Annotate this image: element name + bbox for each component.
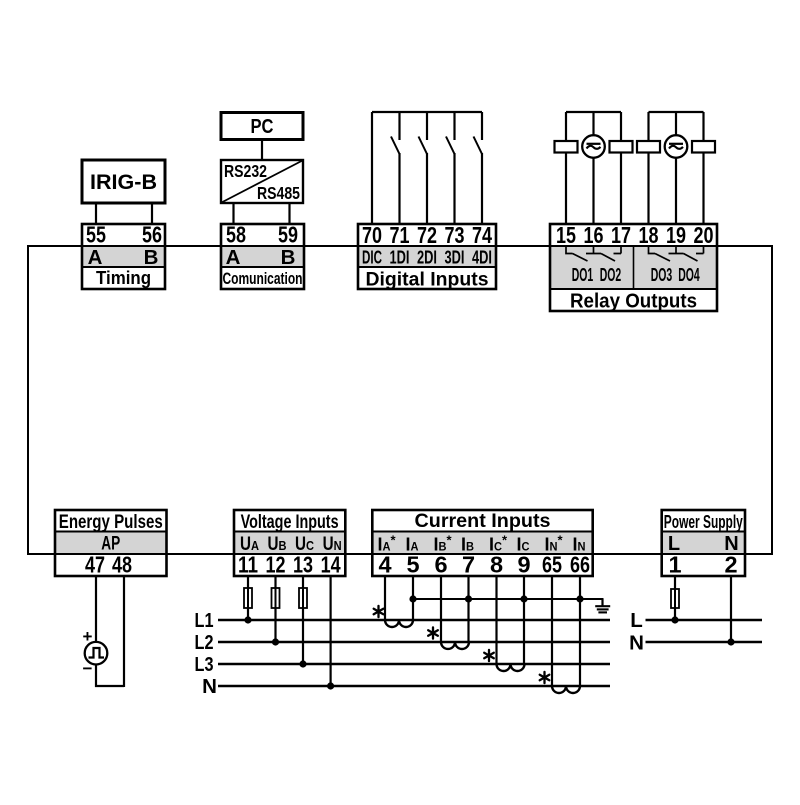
svg-text:N: N: [629, 632, 644, 655]
svg-text:DIC: DIC: [362, 247, 382, 268]
svg-text:12: 12: [266, 552, 286, 578]
svg-text:B: B: [144, 246, 159, 269]
wire fuse to L3: [302, 608, 304, 665]
wire pulse return: [95, 685, 124, 687]
svg-text:56: 56: [142, 222, 162, 248]
wire converter pin 58: [232, 203, 234, 224]
fuse FU4: [674, 589, 676, 608]
svg-text:66: 66: [570, 552, 590, 578]
terminal block Timing: [82, 222, 165, 290]
svg-text:71: 71: [390, 222, 410, 248]
wire top bus: [28, 245, 772, 247]
svg-text:Digital Inputs: Digital Inputs: [366, 269, 489, 291]
svg-text:1DI: 1DI: [390, 247, 410, 268]
svg-text:59: 59: [278, 222, 298, 248]
svg-text:47: 47: [85, 552, 105, 578]
wire line L1: [218, 619, 610, 621]
svg-text:18: 18: [639, 222, 659, 248]
ground: [595, 599, 610, 612]
wire line N: [218, 685, 610, 687]
terminal block Digital Inputs: [358, 222, 496, 291]
wire pulse source bottom: [95, 664, 97, 687]
wire pin 7 (IB): [467, 576, 469, 642]
wire relay group 2 top bus: [649, 111, 704, 113]
fuse FU3: [302, 588, 304, 608]
svg-text:DO4: DO4: [678, 264, 700, 285]
load L1a: [565, 112, 567, 141]
fuse FU1: [247, 588, 249, 608]
terminal block Power Supply: [662, 510, 745, 578]
svg-text:Power Supply: Power Supply: [664, 511, 743, 532]
svg-text:4: 4: [378, 552, 391, 578]
switch DI3: [446, 112, 455, 224]
svg-text:15: 15: [556, 222, 576, 248]
svg-text:RS232: RS232: [224, 161, 267, 181]
wire right bus vertical: [771, 245, 773, 555]
node L1-11: [244, 616, 251, 623]
load L2a: [647, 112, 649, 141]
wire digital input common top bus: [372, 111, 482, 113]
wire pin 8 (IC*): [495, 576, 497, 664]
label polarity mark B: [428, 627, 438, 638]
svg-text:DO2: DO2: [600, 264, 622, 285]
wire pin 2: [730, 576, 732, 643]
current transformer CTN: [552, 686, 580, 693]
load L2b: [702, 112, 704, 141]
svg-text:55: 55: [86, 222, 106, 248]
svg-text:4DI: 4DI: [472, 247, 492, 268]
wire pin 6 (IB*): [440, 576, 442, 642]
svg-text:6: 6: [434, 552, 447, 578]
wire pin 14: [330, 576, 332, 687]
terminal block Voltage Inputs: [234, 510, 345, 578]
wire pin 5 (IA): [412, 576, 414, 620]
node L3-13: [299, 660, 306, 667]
wire DIC pin 70: [371, 112, 373, 224]
svg-text:73: 73: [445, 222, 465, 248]
svg-text:7: 7: [462, 552, 475, 578]
svg-text:Timing: Timing: [96, 268, 151, 288]
svg-text:20: 20: [694, 222, 714, 248]
node N-2: [727, 638, 734, 645]
svg-text:11: 11: [238, 552, 258, 578]
svg-text:13: 13: [293, 552, 313, 578]
terminal block Communication: [221, 222, 304, 290]
svg-text:Current Inputs: Current Inputs: [415, 511, 551, 532]
svg-text:74: 74: [472, 222, 492, 248]
node L2-12: [272, 638, 279, 645]
svg-text:L1: L1: [195, 609, 214, 632]
svg-text:DO1: DO1: [572, 264, 594, 285]
wire pin 66 (IN): [579, 576, 581, 686]
node N-14: [327, 682, 334, 689]
wire line L3: [218, 663, 610, 665]
svg-text:L3: L3: [195, 653, 214, 676]
wire line N supply: [646, 641, 763, 643]
wire pin 13: [302, 576, 304, 588]
wire converter pin 59: [288, 203, 290, 224]
svg-text:9: 9: [517, 552, 530, 578]
svg-text:Voltage Inputs: Voltage Inputs: [241, 512, 339, 533]
current transformer CTC: [497, 664, 525, 671]
wire fuse to L: [674, 608, 676, 621]
switch DI4: [474, 112, 483, 224]
wire PC to converter: [261, 140, 263, 161]
wire line L2: [218, 641, 610, 643]
svg-text:IRIG-B: IRIG-B: [90, 171, 157, 194]
wire line L supply: [646, 619, 763, 621]
wire relay group 1 top bus: [566, 111, 621, 113]
wire fuse to L1: [247, 608, 249, 621]
wire pin 9 (IC): [523, 576, 525, 664]
current transformer CTB: [441, 642, 469, 649]
label polarity mark A: [374, 606, 384, 617]
svg-text:2DI: 2DI: [417, 247, 437, 268]
wire pin 47: [95, 576, 97, 643]
svg-text:16: 16: [584, 222, 604, 248]
svg-text:3DI: 3DI: [445, 247, 465, 268]
svg-text:Relay Outputs: Relay Outputs: [570, 291, 697, 313]
svg-text:14: 14: [321, 552, 341, 578]
node bus-7: [465, 595, 472, 602]
switch DI1: [391, 112, 400, 224]
wire pin 48: [123, 576, 125, 687]
wire CT secondary common bus: [413, 598, 604, 600]
wire pin 4 (IA*): [384, 576, 386, 620]
svg-text:2: 2: [724, 552, 737, 578]
terminal block Current Inputs: [372, 510, 592, 578]
AC source 2: [675, 112, 677, 136]
node bus-66: [576, 595, 583, 602]
switch DI2: [419, 112, 428, 224]
svg-text:+: +: [83, 627, 93, 646]
label polarity mark N: [540, 672, 550, 683]
svg-text:B: B: [281, 246, 296, 269]
IRIG-B source box: [82, 160, 165, 203]
converter RS232/RS485 box: [221, 160, 303, 203]
node bus-9: [520, 595, 527, 602]
PC box: [221, 113, 303, 140]
load L1b: [620, 112, 622, 141]
wire fuse to L2: [274, 608, 276, 643]
AC source 1: [592, 112, 594, 136]
svg-text:72: 72: [417, 222, 437, 248]
terminal block Energy Pulses: [55, 510, 167, 578]
svg-text:A: A: [226, 246, 241, 269]
svg-text:DO3: DO3: [651, 264, 673, 285]
relay contact DO1-2 set: [566, 246, 621, 261]
svg-text:RS485: RS485: [257, 183, 300, 203]
svg-text:L2: L2: [195, 631, 214, 654]
fuse FU2: [275, 588, 277, 608]
svg-text:L: L: [630, 609, 643, 632]
node L-1: [671, 616, 678, 623]
svg-text:70: 70: [362, 222, 382, 248]
svg-text:A: A: [88, 246, 103, 269]
wire pin 65 (IN*): [551, 576, 553, 686]
svg-text:Energy Pulses: Energy Pulses: [59, 512, 163, 533]
wire pin 11: [247, 576, 249, 588]
node bus-5: [409, 595, 416, 602]
svg-text:N: N: [202, 675, 217, 698]
svg-text:17: 17: [611, 222, 631, 248]
svg-text:48: 48: [112, 552, 132, 578]
svg-text:19: 19: [666, 222, 686, 248]
pulse source: [85, 642, 108, 665]
wire pin 1: [674, 576, 676, 589]
wire pin 12: [274, 576, 276, 588]
svg-text:−: −: [83, 659, 93, 678]
current transformer CTA: [385, 620, 413, 627]
svg-text:58: 58: [226, 222, 246, 248]
label polarity mark C: [484, 650, 494, 661]
wire left bus vertical: [27, 245, 29, 555]
wire IRIG-B pin 55: [95, 203, 97, 224]
terminal block Relay Outputs: [550, 222, 717, 313]
svg-text:65: 65: [542, 552, 562, 578]
wire IRIG-B pin 56: [151, 203, 153, 224]
svg-text:1: 1: [668, 552, 681, 578]
svg-text:8: 8: [490, 552, 503, 578]
relay contact DO3-4 set: [649, 246, 704, 261]
svg-text:5: 5: [406, 552, 419, 578]
svg-text:Comunication: Comunication: [223, 269, 303, 288]
svg-text:PC: PC: [251, 115, 274, 138]
wire bottom bus: [28, 553, 772, 555]
